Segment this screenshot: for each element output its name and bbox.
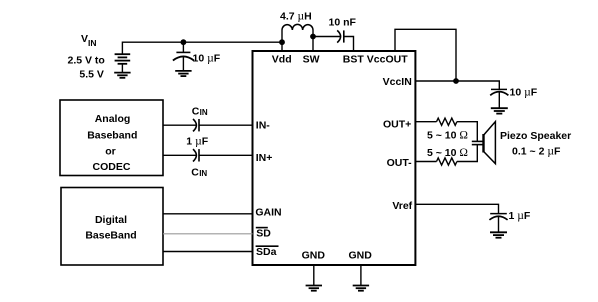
svg-text:CIN: CIN [192, 106, 208, 118]
svg-text:0.1 ~ 2 µF: 0.1 ~ 2 µF [512, 146, 561, 158]
ground (C3) [491, 108, 508, 113]
svg-text:or: or [105, 146, 116, 158]
svg-text:IN-: IN- [256, 120, 270, 132]
wire Digital to SDa [163, 251, 253, 253]
piezo speaker LS1 [472, 122, 496, 164]
svg-text:IN+: IN+ [256, 152, 273, 164]
svg-text:OUT+: OUT+ [383, 118, 411, 130]
svg-text:SW: SW [303, 54, 320, 66]
svg-text:Vdd: Vdd [272, 54, 292, 66]
ground (C4) [490, 232, 507, 237]
ground (GND1) [306, 286, 322, 291]
svg-text:GAIN: GAIN [255, 207, 281, 219]
wire GND pin 2 [360, 265, 362, 286]
capacitor C2 10nF bootstrap [337, 30, 344, 42]
svg-text:5 ~ 10 Ω: 5 ~ 10 Ω [427, 130, 468, 142]
svg-text:Vref: Vref [392, 200, 412, 212]
capacitor C3 10uF VccIN [490, 89, 508, 95]
capacitor CIN1 [193, 119, 199, 131]
wire CIN1 to IN- [199, 124, 253, 126]
wire inductor right leg / SW pin [312, 30, 314, 51]
svg-text:Baseband: Baseband [87, 130, 137, 142]
wire R1 to speaker [457, 122, 477, 142]
svg-text:2.5 V to: 2.5 V to [68, 54, 105, 66]
junction dot C1 tap [181, 39, 187, 45]
wire VIN to Vdd node [122, 42, 282, 54]
capacitor CIN2 [193, 149, 199, 161]
wire GND pin 1 [313, 265, 315, 286]
svg-text:10 nF: 10 nF [329, 17, 357, 29]
svg-text:GND: GND [349, 249, 373, 261]
block Analog Baseband or CODEC [60, 100, 163, 176]
wire inductor left leg / Vdd pin [281, 30, 283, 51]
wire C4 to ground [498, 216, 500, 232]
svg-text:SDa: SDa [256, 246, 277, 258]
wire VccOUT to VccIN node [395, 29, 456, 81]
block Digital BaseBand [61, 188, 163, 266]
resistor R2 5-10 ohm [437, 158, 457, 165]
wire Analog to CIN1 [163, 124, 196, 126]
svg-text:GND: GND [302, 249, 326, 261]
ground (GND2) [353, 286, 369, 291]
svg-text:CODEC: CODEC [93, 161, 131, 173]
svg-text:Analog: Analog [95, 113, 131, 125]
junction dot SW node [310, 34, 316, 40]
svg-text:1 µF: 1 µF [186, 135, 208, 147]
svg-text:Piezo Speaker: Piezo Speaker [500, 130, 571, 142]
svg-text:CIN: CIN [191, 167, 207, 179]
wire OUT- to R2 [416, 161, 437, 163]
svg-text:VccIN: VccIN [383, 76, 412, 88]
svg-text:4.7 µH: 4.7 µH [280, 10, 312, 22]
wire OUT+ to R1 [416, 121, 437, 123]
wire CIN2 to IN+ [199, 154, 253, 156]
ground (battery) [114, 73, 130, 78]
inductor L1 [282, 24, 313, 30]
svg-text:SD: SD [256, 228, 271, 240]
ground (C1) [175, 71, 191, 76]
wire R2 to speaker [457, 145, 477, 162]
svg-text:1 µF: 1 µF [509, 210, 531, 222]
IC U1 body [253, 51, 416, 265]
wire Digital to GAIN [163, 213, 253, 215]
capacitor C1 10uF input [173, 52, 194, 60]
svg-text:BaseBand: BaseBand [85, 229, 136, 241]
wire battery bottom stub [121, 64, 123, 73]
wire C3 to ground [498, 92, 500, 109]
svg-text:10 µF: 10 µF [193, 53, 221, 65]
junction dot Vdd node [279, 39, 285, 45]
svg-text:5.5 V: 5.5 V [79, 68, 104, 80]
pin label SDa (active low) [256, 246, 279, 258]
resistor R1 5-10 ohm [437, 118, 457, 125]
junction dot VccIN node [453, 78, 459, 84]
wire SW to C2 [313, 36, 340, 38]
svg-text:VccOUT: VccOUT [367, 54, 408, 66]
wire C2 to BST pin [344, 37, 354, 52]
battery V1 [115, 54, 131, 64]
wire C1 tap vertical [182, 42, 184, 52]
wire Digital to SD (grey) [163, 233, 253, 235]
wire VccIN pin to C3 [416, 81, 500, 89]
pin label SD (active low) [256, 228, 272, 240]
svg-text:5 ~ 10 Ω: 5 ~ 10 Ω [427, 147, 468, 159]
wire Analog to CIN2 [163, 154, 196, 156]
svg-text:OUT-: OUT- [387, 157, 413, 169]
svg-text:Digital: Digital [95, 214, 127, 226]
wire Vref to C4 [416, 204, 499, 213]
svg-text:BST: BST [343, 54, 365, 66]
wire C1 to ground [182, 56, 184, 71]
svg-text:10 µF: 10 µF [510, 87, 538, 99]
capacitor C4 1uF Vref [489, 214, 507, 220]
